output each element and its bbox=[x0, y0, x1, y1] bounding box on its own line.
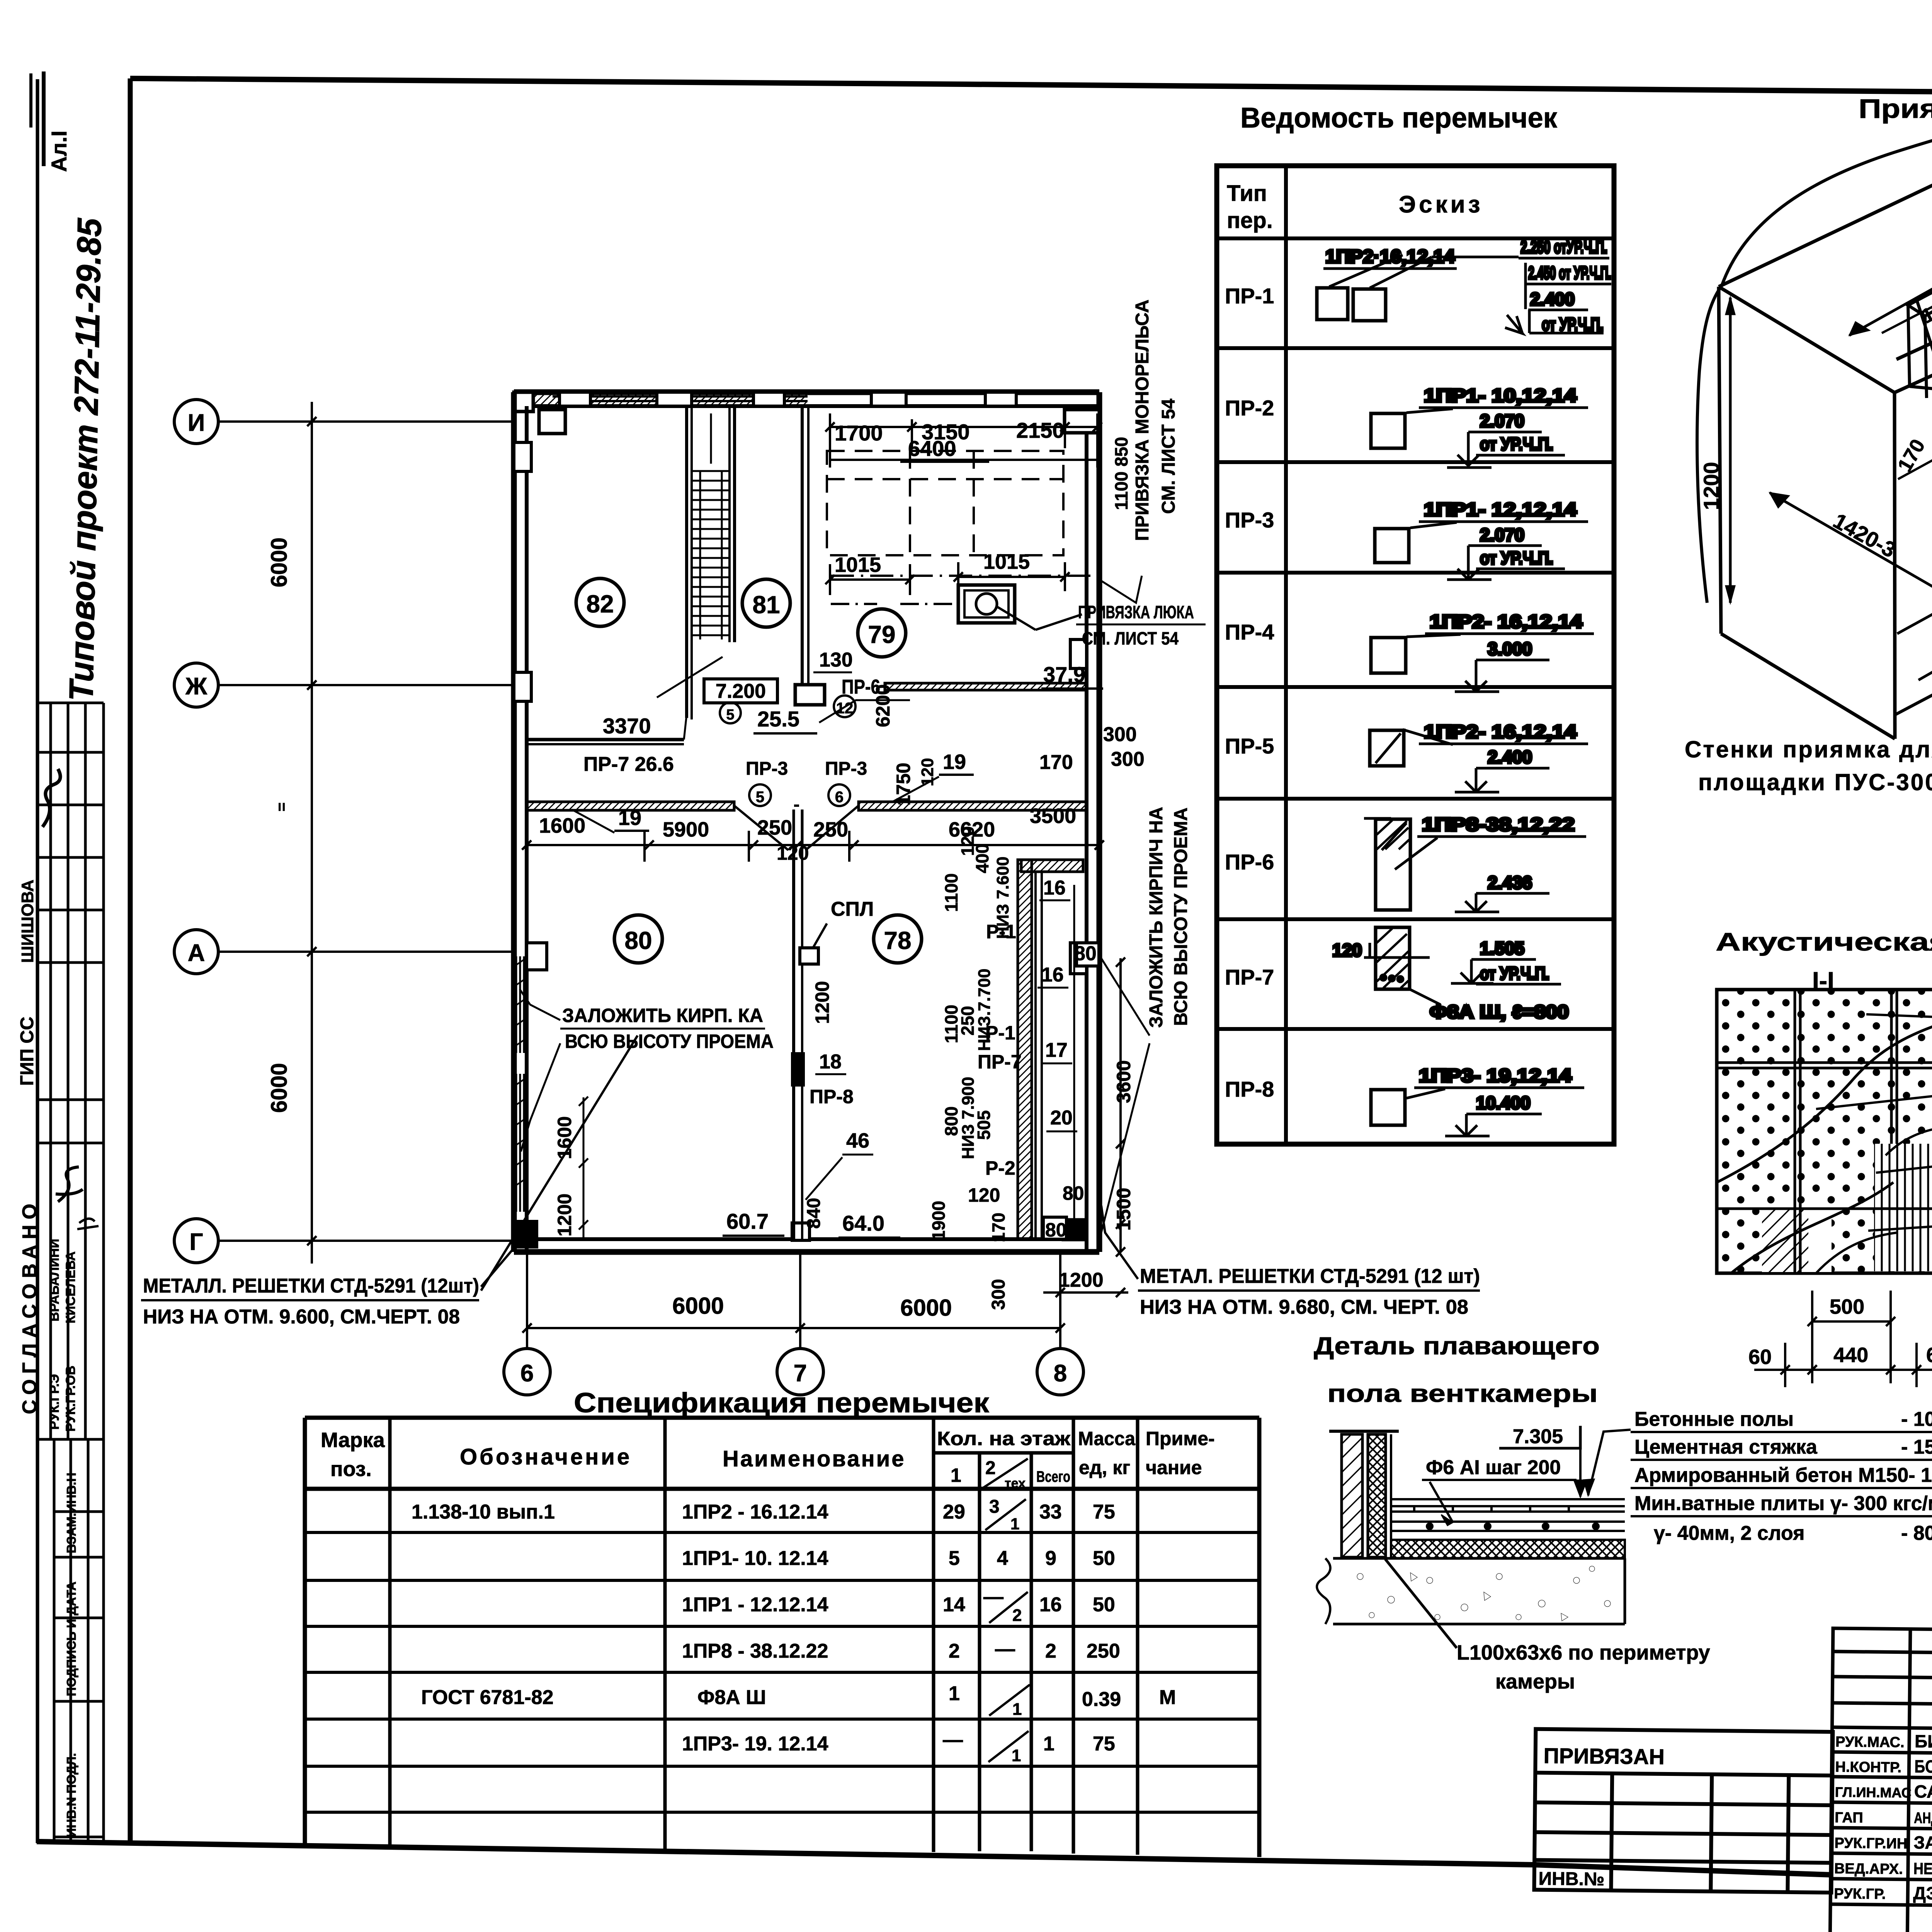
svg-text:1600: 1600 bbox=[539, 814, 585, 837]
svg-text:Ведомость перемычек: Ведомость перемычек bbox=[1240, 102, 1558, 134]
svg-text:ПР-4: ПР-4 bbox=[1225, 620, 1274, 644]
svg-text:Деталь плавающего: Деталь плавающего bbox=[1314, 1332, 1600, 1360]
svg-text:от УР.Ч.П.: от УР.Ч.П. bbox=[1480, 434, 1553, 454]
grid circles bbox=[174, 400, 218, 444]
svg-text:46: 46 bbox=[846, 1129, 869, 1152]
svg-text:Масса: Масса bbox=[1078, 1428, 1136, 1449]
row ПР-8 sketch bbox=[1371, 1066, 1584, 1136]
row ПР-5 sketch bbox=[1370, 722, 1588, 792]
svg-text:СМ. ЛИСТ 54: СМ. ЛИСТ 54 bbox=[1158, 398, 1179, 514]
svg-text:120: 120 bbox=[968, 1184, 1000, 1206]
svg-text:Типовой проект 272-11-29.85: Типовой проект 272-11-29.85 bbox=[62, 218, 109, 702]
svg-text:3500: 3500 bbox=[1030, 804, 1076, 828]
svg-text:Р-1: Р-1 bbox=[985, 1022, 1015, 1044]
svg-text:2.070: 2.070 bbox=[1480, 411, 1524, 431]
svg-text:от УР.Ч.П.: от УР.Ч.П. bbox=[1480, 963, 1549, 983]
svg-text:САМОВЕР: САМОВЕР bbox=[1914, 1781, 1932, 1802]
svg-text:2: 2 bbox=[949, 1640, 960, 1662]
svg-text:ПР-5: ПР-5 bbox=[1225, 734, 1274, 758]
svg-text:ПРИВЯЗКА ЛЮКА: ПРИВЯЗКА ЛЮКА bbox=[1078, 602, 1194, 622]
svg-text:1: 1 bbox=[1043, 1733, 1054, 1755]
svg-text:тех: тех bbox=[1005, 1476, 1026, 1491]
svg-text:1ПР8-38,12,22: 1ПР8-38,12,22 bbox=[1422, 815, 1575, 835]
svg-text:Цементная стяжка: Цементная стяжка bbox=[1634, 1436, 1818, 1458]
dim 732 left bbox=[1897, 552, 1932, 634]
svg-text:3.000: 3.000 bbox=[1488, 639, 1532, 659]
svg-text:Н.КОНТР.: Н.КОНТР. bbox=[1835, 1759, 1901, 1776]
svg-text:170: 170 bbox=[1893, 435, 1930, 476]
svg-text:16: 16 bbox=[1043, 877, 1066, 899]
svg-text:ИНВ.N ПОДЛ.: ИНВ.N ПОДЛ. bbox=[64, 1753, 78, 1837]
side stamp upper table lines bbox=[37, 703, 104, 1439]
svg-text:1: 1 bbox=[1012, 1700, 1022, 1719]
svg-text:СОГЛАСОВАНО: СОГЛАСОВАНО bbox=[19, 1198, 41, 1414]
leader lines to wall section bbox=[1816, 999, 1932, 1231]
svg-text:1200: 1200 bbox=[554, 1194, 575, 1236]
wall below mid doors bbox=[793, 810, 795, 849]
panel dims bbox=[1754, 1291, 1932, 1387]
floor layers bbox=[1391, 1499, 1625, 1531]
svg-text:37.9: 37.9 bbox=[1043, 662, 1085, 687]
row ПР-2 sketch bbox=[1371, 386, 1588, 468]
svg-text:7.200: 7.200 bbox=[716, 680, 766, 702]
svg-text:1ПР2- 16,12,14: 1ПР2- 16,12,14 bbox=[1430, 612, 1582, 632]
svg-text:АНДРАШНИКОВ: АНДРАШНИКОВ bbox=[1914, 1810, 1932, 1827]
spec table rows bbox=[305, 1532, 1259, 1812]
svg-text:2: 2 bbox=[1045, 1640, 1056, 1662]
svg-text:1200: 1200 bbox=[1059, 1269, 1104, 1291]
svg-text:БИКСОН: БИКСОН bbox=[1915, 1731, 1932, 1752]
svg-text:1100 850: 1100 850 bbox=[1111, 437, 1131, 510]
svg-text:6200: 6200 bbox=[872, 684, 894, 727]
right wall pilasters bbox=[1070, 639, 1087, 668]
svg-text:1: 1 bbox=[1012, 1746, 1021, 1765]
svg-text:ШИШОВА: ШИШОВА bbox=[18, 879, 37, 963]
svg-text:1ПР8 - 38.12.22: 1ПР8 - 38.12.22 bbox=[682, 1640, 828, 1662]
svg-text:Эскиз: Эскиз bbox=[1399, 191, 1483, 218]
right duct wall hatched bbox=[1018, 860, 1032, 1239]
svg-text:ДЗЮБЕНКО: ДЗЮБЕНКО bbox=[1913, 1883, 1932, 1904]
svg-text:6: 6 bbox=[835, 789, 844, 806]
svg-text:75: 75 bbox=[1093, 1733, 1115, 1755]
svg-text:М: М bbox=[1159, 1686, 1176, 1709]
svg-text:4: 4 bbox=[997, 1547, 1008, 1570]
svg-text:1200: 1200 bbox=[811, 981, 833, 1024]
svg-text:ПР-7: ПР-7 bbox=[1225, 965, 1274, 989]
svg-text:ГАП: ГАП bbox=[1835, 1810, 1863, 1826]
svg-text:камеры: камеры bbox=[1495, 1670, 1575, 1693]
svg-text:81: 81 bbox=[752, 591, 780, 619]
svg-text:1ПР1- 12,12,14: 1ПР1- 12,12,14 bbox=[1424, 500, 1577, 520]
dim 1200 bbox=[1729, 298, 1732, 603]
signature squiggle bbox=[43, 769, 60, 827]
svg-text:19: 19 bbox=[618, 806, 641, 830]
привязан table bbox=[1534, 1729, 1833, 1893]
svg-text:10.400: 10.400 bbox=[1476, 1093, 1531, 1113]
main pit box bbox=[1719, 158, 1932, 739]
vertical wall 80/78 bbox=[792, 849, 795, 1239]
top wall window band bbox=[533, 394, 808, 405]
svg-text:6400: 6400 bbox=[908, 436, 956, 461]
svg-text:пер.: пер. bbox=[1227, 208, 1273, 233]
stair shaft walls bbox=[685, 406, 688, 718]
svg-text:79: 79 bbox=[868, 621, 895, 648]
svg-text:МЕТАЛ. РЕШЕТКИ СТД-5291 (12 шт: МЕТАЛ. РЕШЕТКИ СТД-5291 (12 шт) bbox=[1140, 1265, 1480, 1287]
svg-text:—: — bbox=[943, 1729, 963, 1751]
svg-text:300: 300 bbox=[1103, 723, 1137, 746]
svg-text:6000: 6000 bbox=[900, 1295, 952, 1321]
svg-text:16: 16 bbox=[1041, 964, 1064, 986]
stair treads bbox=[692, 471, 730, 639]
leader 3370 bbox=[657, 657, 723, 697]
svg-text:1200: 1200 bbox=[1699, 462, 1723, 510]
svg-text:80: 80 bbox=[1063, 1182, 1084, 1204]
svg-text:Тип: Тип bbox=[1227, 181, 1267, 206]
svg-text:Кол. на этаж: Кол. на этаж bbox=[937, 1428, 1071, 1449]
svg-text:2150: 2150 bbox=[1016, 418, 1065, 442]
svg-text:Ж: Ж bbox=[185, 673, 207, 700]
svg-text:поз.: поз. bbox=[330, 1458, 372, 1481]
svg-text:ПР-8: ПР-8 bbox=[810, 1086, 854, 1107]
svg-text:1ПР1- 10. 12.14: 1ПР1- 10. 12.14 bbox=[682, 1547, 828, 1570]
svg-text:5: 5 bbox=[756, 789, 764, 806]
slot1 dims bbox=[1882, 286, 1932, 333]
svg-text:130: 130 bbox=[819, 649, 853, 671]
spec table columns bbox=[390, 1418, 1138, 1855]
svg-text:1ПР2- 16,12,14: 1ПР2- 16,12,14 bbox=[1424, 722, 1577, 742]
svg-text:505: 505 bbox=[974, 1110, 994, 1140]
svg-text:—: — bbox=[995, 1638, 1015, 1660]
detail wall hatched bbox=[1329, 1430, 1399, 1433]
svg-text:Всего: Всего bbox=[1036, 1468, 1070, 1485]
svg-text:ЗАЛОЖИТЬ КИРПИЧ НА: ЗАЛОЖИТЬ КИРПИЧ НА bbox=[1146, 807, 1167, 1028]
svg-text:ВСЮ ВЫСОТУ ПРОЕМА: ВСЮ ВЫСОТУ ПРОЕМА bbox=[565, 1031, 774, 1052]
svg-text:СПЛ: СПЛ bbox=[831, 898, 874, 920]
svg-text:ВРАБАЛИНИ: ВРАБАЛИНИ bbox=[47, 1239, 62, 1321]
svg-text:7.305: 7.305 bbox=[1513, 1425, 1563, 1448]
svg-text:1970±3: 1970±3 bbox=[1930, 216, 1932, 275]
svg-text:1500: 1500 bbox=[1113, 1188, 1134, 1231]
svg-text:1: 1 bbox=[1010, 1515, 1019, 1533]
svg-text:1750: 1750 bbox=[893, 763, 914, 806]
svg-text:СМ. ЛИСТ 54: СМ. ЛИСТ 54 bbox=[1082, 628, 1179, 648]
leader to layers bbox=[1588, 1430, 1631, 1495]
interior wall right of stairs bbox=[801, 406, 804, 686]
duct inner lines bbox=[1073, 885, 1075, 1221]
svg-text:2.436: 2.436 bbox=[1488, 872, 1532, 893]
svg-text:170: 170 bbox=[988, 1213, 1009, 1242]
left wall pilaster boxes bbox=[514, 442, 531, 471]
svg-text:840: 840 bbox=[804, 1198, 824, 1229]
svg-text:БОГДАНОВА: БОГДАНОВА bbox=[1914, 1756, 1932, 1777]
svg-text:Приямок для установки площ: Приямок для установки площадки ПУС-3000 bbox=[1859, 94, 1932, 124]
svg-text:РУК.ГР.ИН: РУК.ГР.ИН bbox=[1834, 1835, 1907, 1852]
svg-text:Приме-: Приме- bbox=[1146, 1428, 1215, 1449]
svg-text:0.39: 0.39 bbox=[1082, 1688, 1121, 1711]
svg-text:1100: 1100 bbox=[941, 873, 961, 912]
svg-text:Ф8А Ш: Ф8А Ш bbox=[697, 1686, 766, 1709]
svg-text:20: 20 bbox=[1050, 1107, 1073, 1129]
svg-text:250: 250 bbox=[1087, 1640, 1120, 1662]
svg-text:6000: 6000 bbox=[672, 1293, 724, 1319]
svg-text:7: 7 bbox=[794, 1360, 807, 1387]
svg-text:2.250 отУР.Ч.П.: 2.250 отУР.Ч.П. bbox=[1520, 237, 1607, 257]
svg-text:60: 60 bbox=[1748, 1345, 1772, 1369]
level box 7.200 bbox=[704, 679, 777, 703]
svg-text:3600: 3600 bbox=[1113, 1060, 1134, 1103]
svg-text:площадки ПУС-3000 бетонируются: площадки ПУС-3000 бетонируются bbox=[1698, 769, 1932, 795]
svg-text:1: 1 bbox=[951, 1464, 961, 1486]
svg-text:6000: 6000 bbox=[267, 537, 292, 587]
svg-text:от УР.Ч.П.: от УР.Ч.П. bbox=[1480, 548, 1553, 568]
svg-text:ПР-1: ПР-1 bbox=[1225, 284, 1274, 308]
bottom corner blocks bbox=[1063, 1219, 1087, 1240]
svg-text:ВСЮ ВЫСОТУ ПРОЕМА: ВСЮ ВЫСОТУ ПРОЕМА bbox=[1171, 808, 1191, 1026]
svg-text:КИСЕЛЕВА: КИСЕЛЕВА bbox=[63, 1252, 78, 1323]
svg-text:5: 5 bbox=[949, 1547, 960, 1570]
outer wall right bbox=[1097, 392, 1102, 1252]
svg-text:80: 80 bbox=[1045, 1219, 1067, 1241]
hatch box (люк) bbox=[958, 585, 1015, 623]
svg-text:РУК.ГР.ОВ: РУК.ГР.ОВ bbox=[63, 1366, 78, 1432]
svg-text:1ПР1 - 12.12.14: 1ПР1 - 12.12.14 bbox=[682, 1594, 828, 1616]
trench floor edge bbox=[1895, 531, 1932, 715]
svg-text:75: 75 bbox=[1093, 1501, 1115, 1523]
svg-text:8: 8 bbox=[1054, 1360, 1067, 1387]
svg-text:5: 5 bbox=[726, 707, 734, 723]
svg-text:300: 300 bbox=[988, 1279, 1009, 1310]
svg-text:80: 80 bbox=[1074, 942, 1097, 965]
room circle 82 bbox=[576, 578, 624, 626]
svg-text:ПР-6: ПР-6 bbox=[1225, 850, 1274, 874]
hatched wall below room 79 bbox=[885, 683, 1087, 690]
hatched wall mid (left segment) bbox=[527, 802, 734, 810]
bottom grid circles bbox=[504, 1349, 550, 1395]
panel vlines zone bbox=[1874, 1144, 1932, 1271]
svg-text:Наименование: Наименование bbox=[723, 1446, 906, 1471]
dim 1420-3 bbox=[1770, 493, 1932, 653]
blob outline bbox=[1697, 88, 1932, 636]
svg-text:НЕСТЕРЕНКО: НЕСТЕРЕНКО bbox=[1913, 1859, 1932, 1878]
L100x63x6 note bbox=[1385, 1559, 1457, 1648]
svg-text:ГИП СС: ГИП СС bbox=[17, 1017, 37, 1086]
room circle 81 bbox=[742, 579, 790, 627]
top-left corner block bbox=[539, 410, 565, 434]
grid leader lines bbox=[218, 422, 514, 1241]
svg-text:2.070: 2.070 bbox=[1480, 525, 1524, 545]
svg-text:ИНВ.№: ИНВ.№ bbox=[1538, 1869, 1604, 1890]
svg-text:64.0: 64.0 bbox=[842, 1211, 884, 1235]
svg-text:1900: 1900 bbox=[929, 1201, 949, 1240]
svg-text:=: = bbox=[273, 803, 290, 811]
svg-text:ЗАЛОЖИТЬ КИРП. КА: ЗАЛОЖИТЬ КИРП. КА bbox=[562, 1005, 763, 1026]
svg-text:120: 120 bbox=[1332, 940, 1362, 960]
row ПР-3 sketch bbox=[1375, 500, 1588, 580]
room circle 79 bbox=[858, 609, 906, 657]
concrete base bbox=[1333, 1558, 1625, 1624]
svg-text:1.138-10 вып.1: 1.138-10 вып.1 bbox=[412, 1501, 555, 1523]
svg-text:500: 500 bbox=[1830, 1295, 1864, 1318]
frame bottom border bbox=[37, 1842, 1832, 1875]
svg-text:9: 9 bbox=[1045, 1547, 1056, 1570]
svg-text:1420-3: 1420-3 bbox=[1829, 508, 1900, 562]
svg-text:Спецификация перемычек: Спецификация перемычек bbox=[574, 1388, 990, 1418]
svg-text:ВЗАМ.ИНВ.Н: ВЗАМ.ИНВ.Н bbox=[64, 1473, 78, 1553]
acoustic panel bbox=[1717, 990, 1932, 1273]
svg-text:250: 250 bbox=[757, 816, 792, 839]
svg-text:78: 78 bbox=[884, 927, 911, 954]
svg-text:50: 50 bbox=[1093, 1594, 1115, 1616]
svg-text:ГОСТ 6781-82: ГОСТ 6781-82 bbox=[421, 1686, 554, 1709]
svg-text:L100х63х6 по периметру: L100х63х6 по периметру bbox=[1457, 1641, 1710, 1664]
svg-text:Г: Г bbox=[189, 1229, 203, 1255]
svg-text:1015: 1015 bbox=[983, 550, 1030, 573]
svg-text:1700: 1700 bbox=[835, 421, 883, 445]
svg-text:Ал.I: Ал.I bbox=[47, 131, 71, 172]
spec table outer bbox=[305, 1418, 1259, 1857]
stair flight arrow bbox=[710, 413, 712, 464]
svg-text:3: 3 bbox=[989, 1497, 1000, 1517]
svg-text:14: 14 bbox=[943, 1594, 965, 1616]
svg-text:1015: 1015 bbox=[835, 553, 881, 577]
top dim row ticks bbox=[825, 413, 1102, 595]
svg-text:29: 29 bbox=[943, 1501, 965, 1523]
svg-text:Стенки приямка для установки: Стенки приямка для установки bbox=[1685, 736, 1932, 762]
dim 1490 left bbox=[1918, 592, 1932, 680]
svg-text:Р-1: Р-1 bbox=[986, 921, 1016, 942]
svg-text:ПРИВЯЗКА МОНОРЕЛЬСА: ПРИВЯЗКА МОНОРЕЛЬСА bbox=[1132, 299, 1153, 541]
svg-text:—: — bbox=[983, 1586, 1003, 1608]
svg-text:ПР-2: ПР-2 bbox=[1225, 396, 1274, 420]
svg-text:25.5: 25.5 bbox=[757, 707, 799, 731]
svg-text:- 15: - 15 bbox=[1901, 1436, 1932, 1458]
svg-text:170: 170 bbox=[1039, 751, 1073, 774]
svg-text:Бетонные полы: Бетонные полы bbox=[1634, 1408, 1794, 1430]
svg-text:МЕТАЛЛ. РЕШЕТКИ СТД-5291 (12шт: МЕТАЛЛ. РЕШЕТКИ СТД-5291 (12шт) bbox=[143, 1275, 479, 1297]
svg-text:1: 1 bbox=[949, 1682, 960, 1705]
svg-text:1ПР1- 10,12,14: 1ПР1- 10,12,14 bbox=[1424, 386, 1577, 406]
svg-text:ПРИВЯЗАН: ПРИВЯЗАН bbox=[1543, 1743, 1665, 1769]
svg-text:НИЗ НА ОТМ. 9.680, СМ. ЧЕРТ. 0: НИЗ НА ОТМ. 9.680, СМ. ЧЕРТ. 08 bbox=[1140, 1296, 1468, 1318]
door swings at ПР-3 bbox=[734, 806, 788, 850]
svg-text:Ф6 АI шаг 200: Ф6 АI шаг 200 bbox=[1426, 1456, 1561, 1479]
left dim line bbox=[307, 402, 316, 1264]
frame top border bbox=[130, 78, 1932, 97]
svg-text:2.400: 2.400 bbox=[1530, 289, 1575, 309]
outer wall left bbox=[511, 392, 517, 1252]
svg-text:РУК.ГР.: РУК.ГР. bbox=[1834, 1886, 1886, 1902]
room circle 80 bbox=[614, 915, 662, 963]
svg-text:250: 250 bbox=[813, 818, 848, 841]
svg-text:ЗАЙЦЕВА: ЗАЙЦЕВА bbox=[1913, 1832, 1932, 1853]
svg-text:- 80: - 80 bbox=[1901, 1522, 1932, 1544]
svg-text:400: 400 bbox=[972, 844, 992, 873]
dim 1970±3 bbox=[1849, 147, 1932, 335]
svg-text:60: 60 bbox=[1926, 1344, 1932, 1367]
svg-text:5900: 5900 bbox=[663, 818, 709, 841]
svg-text:18: 18 bbox=[819, 1051, 842, 1073]
svg-text:ПР-7 26.6: ПР-7 26.6 bbox=[583, 753, 674, 776]
panel tile joints bbox=[1717, 990, 1932, 1273]
equipment dashed zone room 79 bbox=[827, 451, 1063, 555]
svg-text:ПР-7: ПР-7 bbox=[978, 1051, 1022, 1073]
svg-text:- 10: - 10 bbox=[1901, 1408, 1932, 1430]
svg-text:Обозначение: Обозначение bbox=[460, 1444, 632, 1469]
row ПР-6 sketch bbox=[1364, 815, 1586, 912]
svg-text:6: 6 bbox=[520, 1360, 534, 1387]
svg-text:440: 440 bbox=[1833, 1344, 1868, 1367]
hatched wall mid (right segment) bbox=[859, 802, 1087, 810]
svg-text:1ПР3- 19,12,14: 1ПР3- 19,12,14 bbox=[1419, 1066, 1571, 1086]
svg-text:Мин.ватные плиты γ- 300 кгс/м: Мин.ватные плиты γ- 300 кгс/м² bbox=[1634, 1492, 1932, 1515]
svg-text:2: 2 bbox=[985, 1458, 996, 1478]
svg-text:Р-2: Р-2 bbox=[985, 1157, 1015, 1179]
svg-text:2: 2 bbox=[1012, 1606, 1022, 1625]
svg-text:1ПР3- 19. 12.14: 1ПР3- 19. 12.14 bbox=[682, 1733, 828, 1755]
svg-text:Армированный бетон М150- 100: Армированный бетон М150- 100 bbox=[1634, 1464, 1932, 1486]
svg-text:РУК.МАС.: РУК.МАС. bbox=[1835, 1734, 1905, 1751]
panel freehand curves bbox=[1717, 1020, 1932, 1182]
row ПР-1 sketch bbox=[1317, 237, 1611, 334]
svg-text:ПР-8: ПР-8 bbox=[1225, 1077, 1274, 1101]
svg-text:1.505: 1.505 bbox=[1480, 938, 1524, 958]
svg-text:82: 82 bbox=[586, 590, 614, 618]
svg-text:2.400: 2.400 bbox=[1488, 747, 1532, 767]
svg-text:ед, кг: ед, кг bbox=[1079, 1457, 1130, 1478]
svg-text:чание: чание bbox=[1146, 1457, 1202, 1478]
monorail dash-dot axis bbox=[831, 575, 1097, 577]
outer wall bottom bbox=[514, 1249, 1099, 1255]
svg-text:1ПР2 - 16.12.14: 1ПР2 - 16.12.14 bbox=[682, 1501, 828, 1523]
svg-text:60.7: 60.7 bbox=[726, 1209, 769, 1233]
svg-text:16: 16 bbox=[1039, 1594, 1062, 1616]
svg-text:пола венткамеры: пола венткамеры bbox=[1327, 1379, 1598, 1407]
svg-text:γ- 40мм, 2 слоя: γ- 40мм, 2 слоя bbox=[1654, 1522, 1804, 1544]
svg-text:80: 80 bbox=[624, 927, 652, 954]
svg-text:Акустическая отделка стен: Акустическая отделка стен венткамер bbox=[1716, 927, 1932, 956]
svg-text:ГЛ.ИН.МАС: ГЛ.ИН.МАС bbox=[1835, 1784, 1912, 1801]
svg-text:3370: 3370 bbox=[603, 714, 651, 738]
svg-text:Ф8А Ш, ℓ=800: Ф8А Ш, ℓ=800 bbox=[1430, 1002, 1569, 1022]
svg-text:А: А bbox=[188, 940, 205, 966]
svg-text:И: И bbox=[188, 410, 205, 436]
svg-text:300: 300 bbox=[1111, 748, 1145, 770]
slot 1 on left arm bbox=[1908, 292, 1932, 398]
signature small bbox=[56, 1167, 83, 1202]
svg-text:ПР-3: ПР-3 bbox=[825, 759, 867, 779]
svg-text:ВЕД.АРХ.: ВЕД.АРХ. bbox=[1834, 1861, 1903, 1878]
svg-text:ПР-3: ПР-3 bbox=[746, 759, 788, 779]
svg-text:17: 17 bbox=[1045, 1039, 1068, 1061]
svg-text:ПР-3: ПР-3 bbox=[1225, 508, 1274, 532]
lintel table frame bbox=[1217, 166, 1614, 1144]
svg-text:ПОДПИСЬ И ДАТА: ПОДПИСЬ И ДАТА bbox=[64, 1582, 78, 1696]
svg-text:50: 50 bbox=[1093, 1547, 1115, 1570]
paper edge mark top-left bbox=[29, 73, 32, 128]
signature table bbox=[1830, 1628, 1932, 1932]
svg-text:РУК.ГР.Э: РУК.ГР.Э bbox=[47, 1374, 62, 1430]
svg-text:2.450 от УР.Ч.П.: 2.450 от УР.Ч.П. bbox=[1528, 263, 1611, 283]
frame left border bbox=[128, 78, 133, 1844]
side stamp outer left line bbox=[36, 79, 39, 1843]
partition wall 82/80 bbox=[527, 738, 684, 742]
row ПР-4 sketch bbox=[1371, 612, 1594, 692]
svg-text:120: 120 bbox=[918, 758, 937, 786]
svg-text:Марка: Марка bbox=[321, 1429, 385, 1452]
leader привязка люка bbox=[1036, 614, 1082, 630]
bottom dim line bbox=[522, 1252, 1065, 1376]
svg-text:19: 19 bbox=[943, 750, 966, 774]
